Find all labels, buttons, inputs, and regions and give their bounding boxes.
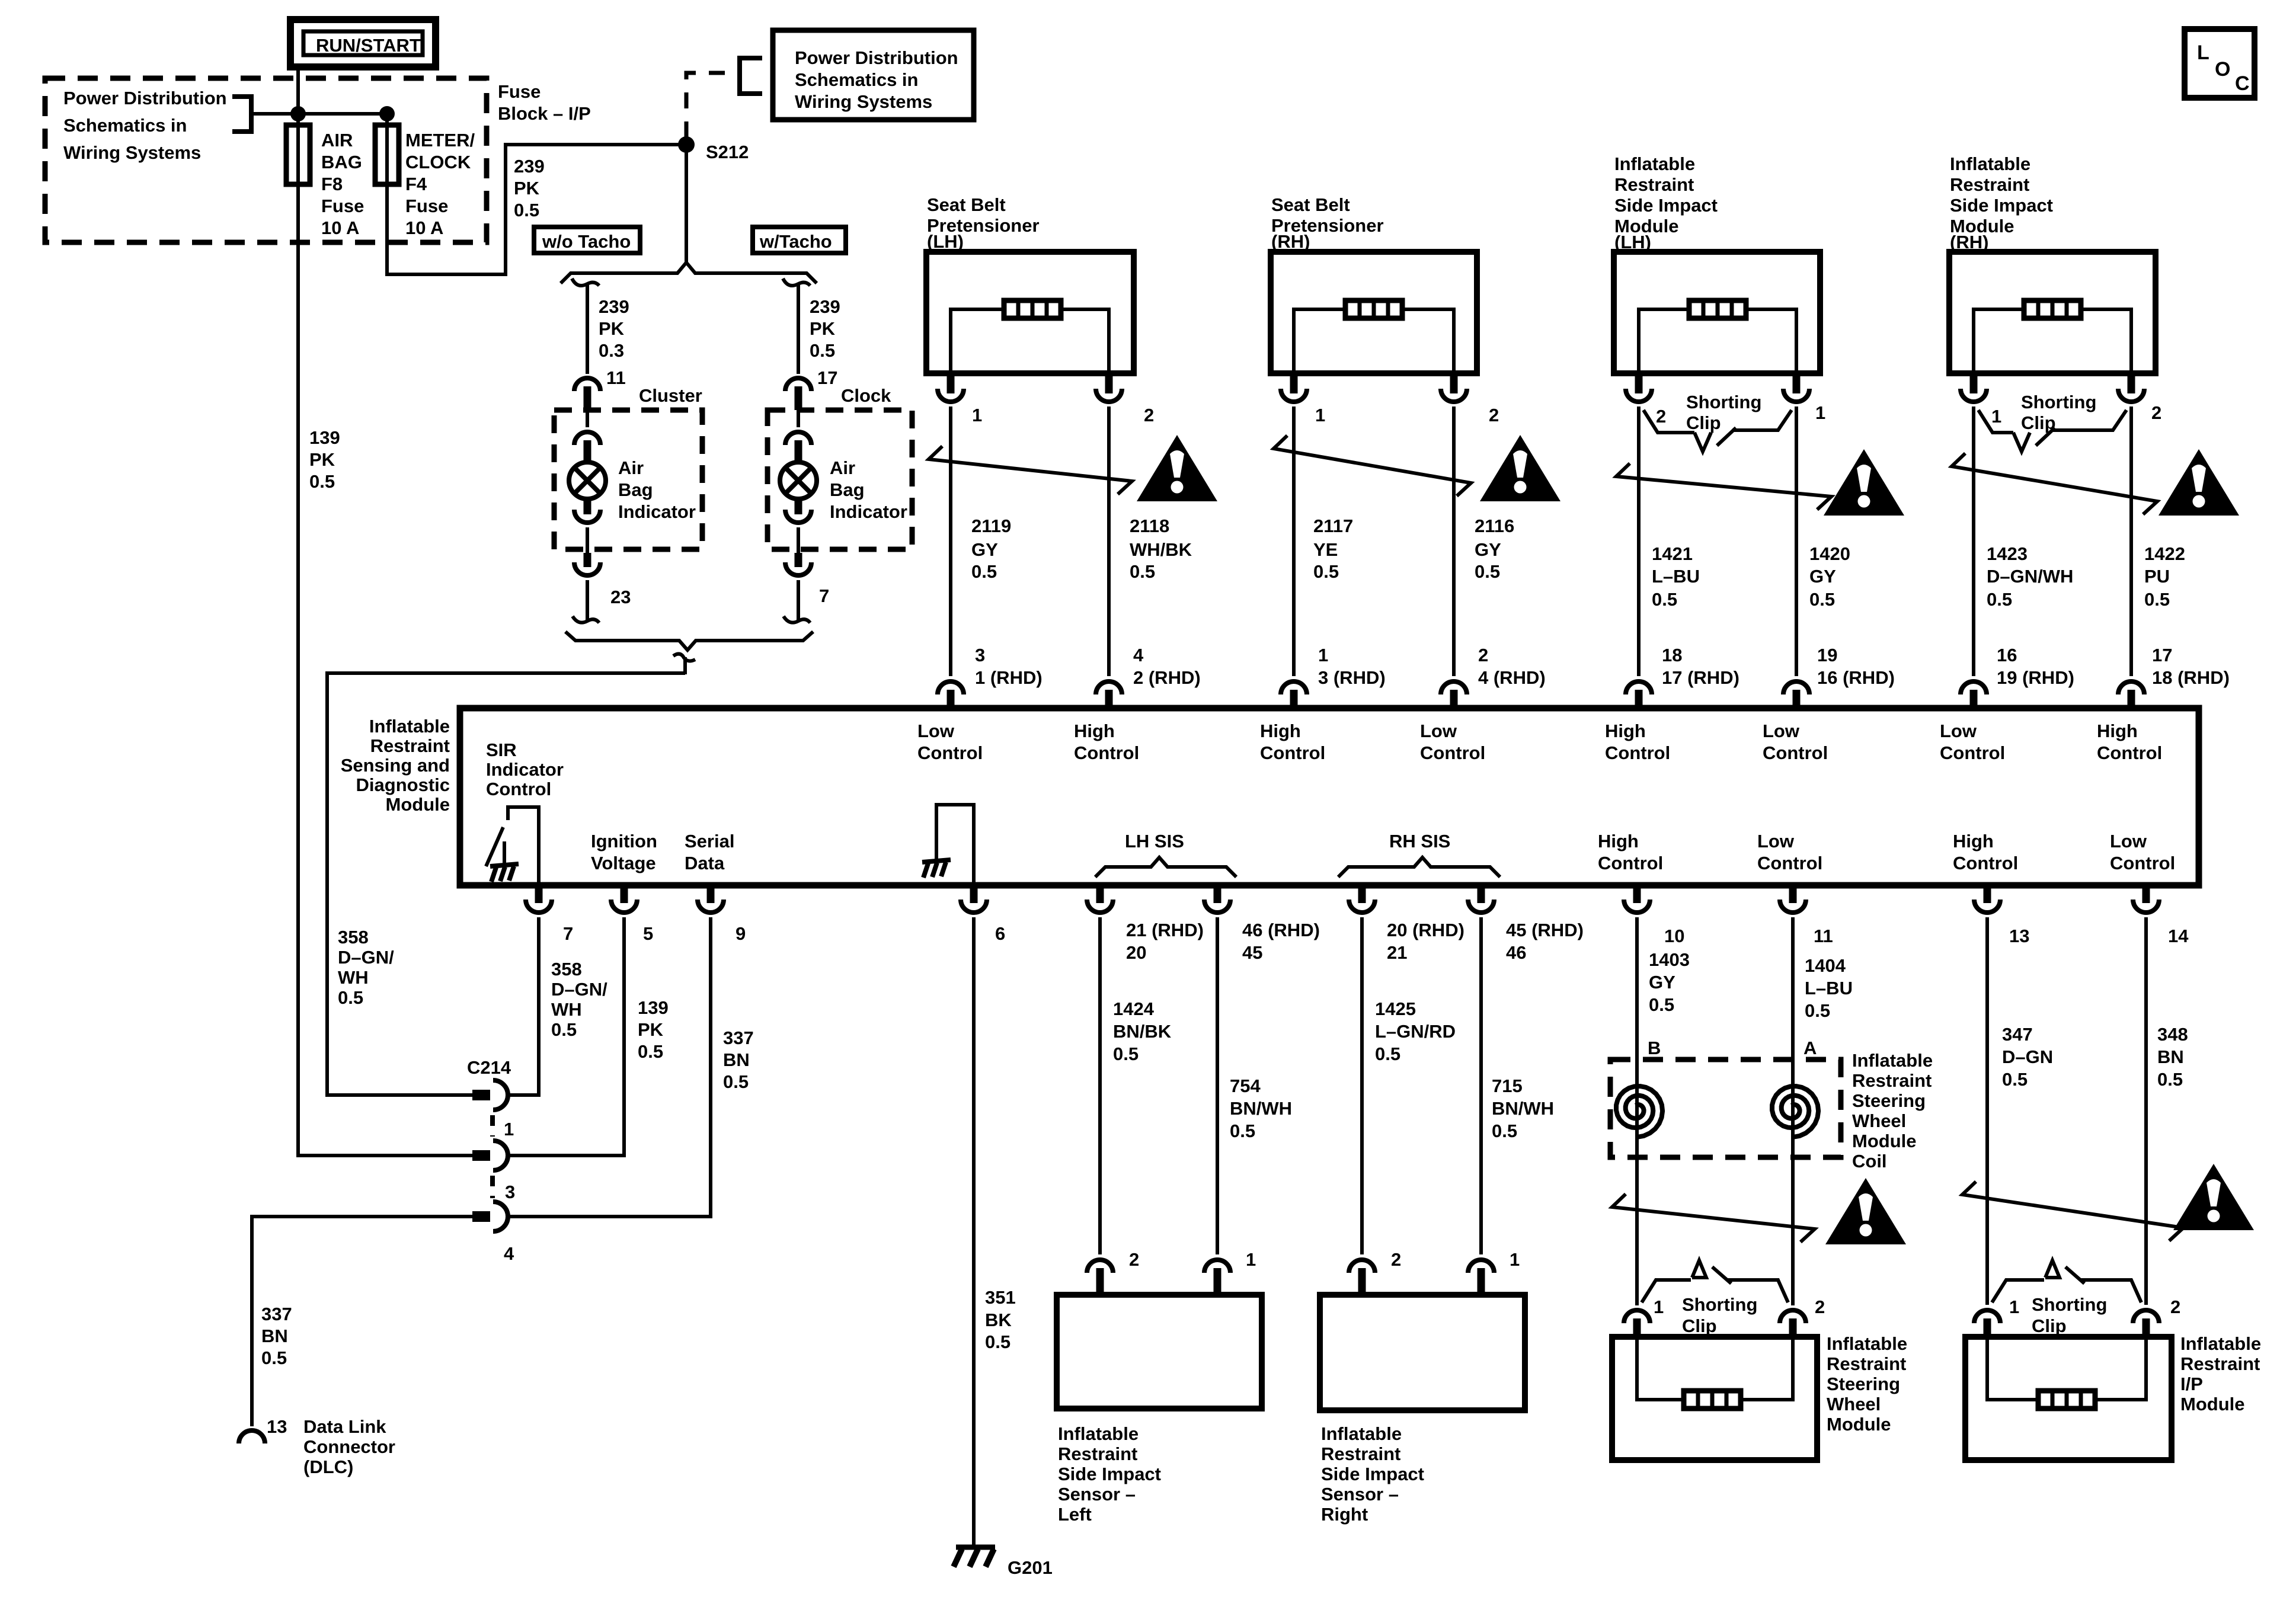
svg-text:BN: BN: [723, 1049, 750, 1070]
dashed wire S212 up: [686, 73, 740, 137]
svg-text:Side Impact: Side Impact: [1614, 195, 1718, 216]
svg-text:1: 1: [504, 1119, 514, 1140]
label 337 BN 0.5 DLC: [261, 1304, 292, 1368]
svg-text:1: 1: [972, 405, 982, 425]
warning triangle steering wheel: [1825, 1178, 1906, 1244]
SIM RH internal wires: [1974, 309, 2131, 373]
svg-text:17 (RHD): 17 (RHD): [1662, 667, 1739, 688]
module pin 754: [1204, 885, 1230, 913]
svg-text:13: 13: [2009, 926, 2029, 946]
svg-text:Ignition: Ignition: [591, 831, 657, 852]
wire 1425 L-GN/RD: [1360, 917, 1364, 1254]
label Low Control 3025 bottom: [1757, 831, 1822, 873]
svg-text:Data Link: Data Link: [303, 1416, 386, 1437]
module pin 9: [698, 885, 724, 913]
coil A spiral: [1772, 1086, 1818, 1137]
svg-text:Control: Control: [1598, 853, 1663, 873]
svg-text:PU: PU: [2144, 566, 2170, 587]
diagonal crossing steering wheel: [1612, 1194, 1815, 1242]
label 2118 WH/BK 0.5: [1130, 516, 1192, 582]
label 45 RHD 46: [1506, 920, 1584, 963]
wire F4 top: [385, 114, 389, 184]
svg-text:Inflatable: Inflatable: [1827, 1333, 1907, 1354]
svg-text:5: 5: [643, 923, 653, 944]
svg-text:1: 1: [1654, 1297, 1664, 1317]
wire 239 PK 0.5 clock: [797, 283, 800, 374]
svg-text:45 (RHD): 45 (RHD): [1506, 920, 1584, 940]
hook merge output: [673, 654, 695, 675]
fuse block dashed box: [45, 78, 487, 242]
SIM RH pin 2: [2118, 373, 2144, 402]
svg-text:Low: Low: [917, 721, 955, 741]
label Air Bag Indicator: [618, 457, 696, 522]
label 139 PK 0.5 pin5: [638, 997, 669, 1062]
svg-text:Restraint: Restraint: [1614, 174, 1694, 195]
svg-text:4: 4: [504, 1243, 514, 1264]
label pins 2 4RHD: [1478, 645, 1546, 688]
box power distribution schematics in wiring systems: [773, 30, 974, 120]
SIR switch ground: [490, 841, 519, 882]
svg-text:20: 20: [1126, 942, 1146, 963]
svg-text:BN/WH: BN/WH: [1230, 1098, 1292, 1119]
fuse F4 METER/CLOCK: [375, 125, 399, 184]
svg-text:Control: Control: [1420, 742, 1485, 763]
svg-text:21 (RHD): 21 (RHD): [1126, 920, 1204, 940]
svg-text:1403: 1403: [1649, 949, 1690, 970]
svg-text:Restraint: Restraint: [1321, 1443, 1400, 1464]
svg-text:Inflatable: Inflatable: [1852, 1050, 1933, 1071]
svg-text:18 (RHD): 18 (RHD): [2152, 667, 2230, 688]
svg-text:Control: Control: [2097, 742, 2162, 763]
svg-text:11: 11: [606, 367, 626, 388]
node dot F4 feed: [379, 106, 395, 121]
svg-text:Right: Right: [1321, 1504, 1368, 1525]
svg-text:Restraint: Restraint: [370, 735, 450, 756]
svg-text:358: 358: [338, 927, 369, 948]
bracket to power distribution box: [740, 58, 762, 94]
dashed box cluster: [554, 410, 702, 549]
svg-text:337: 337: [261, 1304, 292, 1324]
module pin 5: [611, 885, 637, 913]
svg-text:Inflatable: Inflatable: [1614, 153, 1695, 174]
label pins 17 18RHD: [2152, 645, 2230, 688]
label Ignition Voltage: [591, 831, 657, 873]
svg-text:0.5: 0.5: [1475, 561, 1500, 582]
svg-text:2: 2: [1129, 1249, 1139, 1270]
diagonal crossing SIM LH: [1616, 463, 1831, 510]
label 239 PK 0.5: [810, 296, 840, 361]
svg-text:2 (RHD): 2 (RHD): [1133, 667, 1201, 688]
svg-text:Shorting: Shorting: [1686, 392, 1761, 412]
label 1425 L-GN/RD 0.5: [1375, 998, 1456, 1064]
svg-text:1: 1: [2009, 1297, 2019, 1317]
svg-text:Air: Air: [830, 457, 855, 478]
label Inflatable Restraint Side Impact Sensor Right: [1321, 1423, 1424, 1525]
svg-text:2119: 2119: [971, 516, 1011, 536]
sensor left pin 1 dome: [1204, 1260, 1230, 1295]
SIM LH pin 2: [1626, 373, 1652, 402]
lamp air bag indicator cluster: [569, 462, 606, 499]
svg-text:Restraint: Restraint: [1058, 1443, 1137, 1464]
diagonal crossing pretensioner RH: [1274, 436, 1471, 496]
label 754 BN/WH 0.5: [1230, 1076, 1292, 1141]
svg-text:1: 1: [1315, 405, 1325, 425]
svg-text:1: 1: [1815, 402, 1825, 423]
wire 348 BN: [2144, 917, 2148, 1305]
svg-text:0.5: 0.5: [1230, 1121, 1255, 1141]
svg-text:Indicator: Indicator: [618, 501, 696, 522]
sensor right pin 1 dome: [1468, 1260, 1494, 1295]
label 1420 GY 0.5: [1809, 543, 1850, 610]
hook clock wire top: [783, 279, 810, 286]
module pin 13: [1974, 885, 2000, 913]
svg-text:0.5: 0.5: [1649, 994, 1674, 1015]
label 239 PK 0.3: [599, 296, 629, 361]
svg-text:RH SIS: RH SIS: [1389, 831, 1450, 852]
svg-text:Schematics in: Schematics in: [795, 69, 918, 90]
shorting clip IP: [1992, 1260, 2141, 1302]
steering pin 1 dome: [1624, 1310, 1650, 1339]
module pin dome 2765: [1626, 681, 1652, 710]
squib SIM LH: [1689, 300, 1746, 318]
svg-text:0.5: 0.5: [338, 987, 363, 1008]
label 46 RHD 45: [1242, 920, 1320, 963]
label 1423 D-GN/WH 0.5: [1987, 543, 2073, 610]
svg-text:Wheel: Wheel: [1852, 1110, 1906, 1131]
wire 351 BK ground: [972, 917, 976, 1547]
svg-text:4 (RHD): 4 (RHD): [1478, 667, 1546, 688]
label Low Control 2453: [1420, 721, 1485, 763]
svg-text:CLOCK: CLOCK: [405, 152, 471, 172]
wire RUN/START down to fuse F8: [296, 67, 300, 184]
svg-text:1: 1: [1510, 1249, 1520, 1270]
svg-text:13: 13: [267, 1416, 287, 1437]
wire F4 to S212: [387, 145, 686, 274]
svg-text:Inflatable: Inflatable: [1321, 1423, 1402, 1444]
svg-text:O: O: [2215, 58, 2230, 81]
pretensioner LH pin 1: [938, 373, 964, 402]
svg-text:Shorting: Shorting: [1682, 1294, 1757, 1315]
svg-text:RUN/START: RUN/START: [316, 35, 421, 56]
label Low Control 3621 bottom: [2110, 831, 2175, 873]
svg-text:3: 3: [505, 1182, 515, 1202]
svg-text:BN: BN: [261, 1326, 288, 1346]
label Inflatable Restraint Side Impact Module (LH): [1614, 153, 1718, 252]
warning triangle SIM LH: [1824, 449, 1904, 516]
label SIR Indicator Control: [486, 740, 564, 799]
svg-text:0.5: 0.5: [1492, 1121, 1517, 1141]
label Inflatable Restraint Side Impact Sensor Left: [1058, 1423, 1161, 1525]
svg-text:10 A: 10 A: [321, 217, 359, 238]
svg-text:17: 17: [817, 367, 837, 388]
svg-text:2: 2: [1478, 645, 1488, 665]
label Inflatable Restraint Steering Wheel Module Coil: [1852, 1050, 1933, 1172]
svg-text:Module: Module: [1827, 1414, 1891, 1435]
svg-text:Shorting: Shorting: [2032, 1294, 2107, 1315]
wire 715 BN/WH: [1479, 917, 1483, 1254]
module pin 1425: [1349, 885, 1375, 913]
module pin 7: [526, 885, 552, 913]
svg-text:2: 2: [1656, 406, 1666, 427]
label Shorting Clip steering: [1682, 1294, 1757, 1336]
svg-text:0.5: 0.5: [1809, 589, 1835, 610]
connector C214 pin 4: [472, 1202, 508, 1231]
squib pretensioner LH: [1004, 300, 1061, 318]
label 358 D-GN/WH left: [338, 927, 394, 1008]
label 1421 L-BU 0.5: [1652, 543, 1700, 610]
svg-text:L–BU: L–BU: [1805, 978, 1853, 998]
svg-text:0.5: 0.5: [551, 1019, 577, 1040]
svg-text:Bag: Bag: [618, 479, 653, 500]
svg-text:46: 46: [1506, 942, 1526, 963]
wire DLC to C214 pin 4: [252, 1217, 472, 1426]
wire 1403 GY: [1635, 917, 1639, 1305]
svg-text:D–GN/: D–GN/: [338, 947, 394, 968]
svg-text:WH: WH: [551, 999, 582, 1020]
dashed box steering wheel coil: [1610, 1060, 1841, 1157]
wire 1421 L-BU: [1637, 406, 1641, 676]
svg-text:LH SIS: LH SIS: [1125, 831, 1184, 852]
label Seat Belt Pretensioner (RH): [1271, 194, 1384, 252]
pretensioner LH internal wires: [951, 309, 1109, 373]
label 715 BN/WH 0.5: [1492, 1076, 1554, 1141]
label 337 BN 0.5 pin9: [723, 1028, 754, 1092]
svg-text:High: High: [1260, 721, 1301, 741]
wire bracket to jumper: [251, 112, 387, 116]
svg-text:PK: PK: [309, 449, 335, 470]
svg-text:Restraint: Restraint: [1852, 1070, 1932, 1091]
svg-text:C214: C214: [467, 1057, 511, 1078]
svg-text:BAG: BAG: [321, 152, 362, 172]
svg-text:16: 16: [1997, 645, 2017, 665]
label METER/CLOCK F4: [405, 130, 475, 238]
wire 2116 GY: [1452, 406, 1456, 676]
module pin dome 3031: [1783, 681, 1809, 710]
svg-text:1424: 1424: [1113, 998, 1155, 1019]
wire 347 D-GN: [1985, 917, 1989, 1305]
label 2116 GY 0.5: [1475, 516, 1514, 582]
svg-text:Clip: Clip: [1682, 1315, 1717, 1336]
svg-text:High: High: [2097, 721, 2138, 741]
svg-text:L: L: [2197, 41, 2209, 64]
svg-text:METER/: METER/: [405, 130, 475, 151]
svg-text:0.5: 0.5: [971, 561, 997, 582]
svg-text:(LH): (LH): [927, 231, 964, 252]
svg-text:Sensor –: Sensor –: [1321, 1484, 1399, 1505]
svg-text:1420: 1420: [1809, 543, 1850, 564]
hook cluster wire bottom: [573, 616, 599, 623]
svg-text:Control: Control: [1953, 853, 2018, 873]
SIM LH internal wires: [1639, 309, 1796, 373]
svg-text:D–GN/WH: D–GN/WH: [1987, 566, 2073, 587]
svg-text:239: 239: [599, 296, 629, 317]
svg-text:Control: Control: [1605, 742, 1670, 763]
svg-text:0.5: 0.5: [1313, 561, 1339, 582]
svg-text:F4: F4: [405, 174, 427, 194]
module pin 1424: [1087, 885, 1113, 913]
svg-text:AIR: AIR: [321, 130, 353, 151]
pretensioner RH pin 2: [1441, 373, 1467, 402]
pretensioner LH pin 2: [1096, 373, 1122, 402]
svg-text:High: High: [1074, 721, 1115, 741]
module internal ground pin 6: [922, 805, 974, 884]
svg-text:Control: Control: [1074, 742, 1139, 763]
label inflatable restraint sensing and diagnostic module: [341, 716, 450, 815]
svg-text:Seat Belt: Seat Belt: [927, 194, 1006, 215]
svg-text:239: 239: [810, 296, 840, 317]
wire 1422 PU: [2129, 406, 2133, 676]
svg-text:348: 348: [2157, 1024, 2188, 1045]
cluster lamp lower cup: [574, 499, 600, 553]
svg-text:Control: Control: [1763, 742, 1828, 763]
svg-text:(DLC): (DLC): [303, 1457, 353, 1477]
box RUN/START: [290, 20, 436, 67]
SIM RH pin 1: [1961, 373, 1987, 402]
merge brace cluster clock: [565, 632, 813, 650]
dashed link C214 a: [490, 1115, 495, 1137]
svg-text:20 (RHD): 20 (RHD): [1387, 920, 1464, 940]
svg-text:239: 239: [514, 156, 545, 177]
svg-text:Wiring Systems: Wiring Systems: [795, 91, 932, 112]
brace LH SIS: [1095, 857, 1236, 877]
node S211a dot: [290, 106, 306, 121]
svg-text:S212: S212: [706, 142, 749, 162]
svg-text:Low: Low: [1420, 721, 1457, 741]
svg-text:Control: Control: [486, 779, 551, 799]
svg-text:Module: Module: [2180, 1394, 2245, 1414]
svg-text:1421: 1421: [1652, 543, 1693, 564]
wire C214 pin3 to module pin 5: [509, 917, 624, 1156]
svg-text:17: 17: [2152, 645, 2172, 665]
svg-text:Low: Low: [1763, 721, 1800, 741]
svg-text:2: 2: [1815, 1297, 1825, 1317]
label 1422 PU 0.5: [2144, 543, 2185, 610]
IP module internal wires: [1987, 1337, 2146, 1400]
node S212: [678, 136, 695, 153]
ground G201: [954, 1547, 995, 1567]
svg-text:Side Impact: Side Impact: [1058, 1464, 1161, 1484]
label pins 16 19RHD: [1997, 645, 2074, 688]
wire 2119 GY: [949, 406, 952, 676]
pin 23 cup: [574, 553, 600, 622]
box seat belt pretensioner LH: [926, 252, 1134, 373]
svg-text:2118: 2118: [1130, 516, 1169, 536]
svg-text:11: 11: [1814, 926, 1833, 946]
label 239 PK 0.5 top: [514, 156, 545, 220]
label 21 RHD 20: [1126, 920, 1204, 963]
steering module internal wires: [1637, 1337, 1793, 1400]
svg-text:(RH): (RH): [1271, 231, 1310, 252]
svg-text:Steering: Steering: [1827, 1374, 1900, 1394]
svg-text:2: 2: [1144, 405, 1154, 425]
svg-text:Indicator: Indicator: [486, 759, 564, 780]
label High Control 1871: [1074, 721, 1139, 763]
svg-text:0.5: 0.5: [261, 1347, 287, 1368]
svg-text:B: B: [1648, 1038, 1661, 1058]
svg-text:w/Tacho: w/Tacho: [759, 231, 832, 252]
svg-text:Indicator: Indicator: [830, 501, 907, 522]
svg-text:Sensing and: Sensing and: [341, 755, 450, 776]
svg-text:1425: 1425: [1375, 998, 1416, 1019]
label 139 PK 0.5 left: [309, 427, 340, 492]
svg-text:Power Distribution: Power Distribution: [63, 88, 227, 108]
svg-text:Module: Module: [386, 794, 450, 815]
svg-text:F8: F8: [321, 174, 343, 194]
svg-text:0.5: 0.5: [1987, 589, 2012, 610]
wire 754 BN/WH: [1216, 917, 1219, 1254]
svg-text:337: 337: [723, 1028, 754, 1048]
svg-text:0.5: 0.5: [514, 200, 539, 220]
steering pin 2 dome: [1780, 1310, 1806, 1339]
svg-text:0.5: 0.5: [723, 1071, 749, 1092]
svg-text:19: 19: [1817, 645, 1837, 665]
module pin 10: [1624, 885, 1650, 913]
module pin 14: [2133, 885, 2159, 913]
svg-text:2: 2: [1489, 405, 1499, 425]
pin 17 dome: [785, 378, 811, 410]
module pin dome 3330: [1961, 681, 1987, 710]
svg-text:Data: Data: [685, 853, 725, 873]
label Low Control 1604: [917, 721, 983, 763]
svg-text:1422: 1422: [2144, 543, 2185, 564]
svg-text:10: 10: [1664, 926, 1684, 946]
label High Control 2183: [1260, 721, 1325, 763]
svg-text:Inflatable: Inflatable: [2180, 1333, 2261, 1354]
label Inflatable Restraint Steering Wheel Module: [1827, 1333, 1907, 1435]
svg-text:Connector: Connector: [303, 1436, 395, 1457]
svg-text:Side Impact: Side Impact: [1321, 1464, 1424, 1484]
svg-text:Clip: Clip: [1686, 412, 1721, 433]
svg-text:Restraint: Restraint: [2180, 1353, 2260, 1374]
label Seat Belt Pretensioner (LH): [927, 194, 1040, 252]
pin 7 clock cup: [785, 553, 811, 622]
svg-text:754: 754: [1230, 1076, 1261, 1096]
svg-text:358: 358: [551, 959, 582, 980]
label Low Control 3031: [1763, 721, 1828, 763]
wire 2118 WH/BK: [1107, 406, 1111, 676]
svg-text:Low: Low: [1757, 831, 1795, 852]
svg-text:Fuse: Fuse: [498, 81, 541, 102]
svg-text:PK: PK: [638, 1019, 664, 1040]
dashed link C214 b: [490, 1176, 495, 1198]
label power distribution schematics left: [63, 88, 227, 163]
label 13 Data Link Connector DLC: [267, 1416, 395, 1477]
svg-text:347: 347: [2002, 1024, 2033, 1045]
svg-text:BN/BK: BN/BK: [1113, 1021, 1172, 1042]
svg-text:Control: Control: [1260, 742, 1325, 763]
svg-text:Seat Belt: Seat Belt: [1271, 194, 1350, 215]
svg-text:2: 2: [1391, 1249, 1401, 1270]
module pin dome 2183: [1281, 681, 1307, 710]
label AIR BAG F8: [321, 130, 364, 238]
label Shorting Clip SIM LH: [1686, 392, 1761, 433]
svg-text:Wheel: Wheel: [1827, 1394, 1881, 1414]
brace split w/o w/ tacho: [561, 263, 817, 283]
svg-text:Inflatable: Inflatable: [1950, 153, 2030, 174]
sensor left pin 2 dome: [1087, 1260, 1113, 1295]
squib steering wheel module: [1684, 1391, 1741, 1409]
svg-text:Control: Control: [1940, 742, 2005, 763]
label 1404 L-BU 0.5: [1805, 955, 1853, 1021]
diagonal crossing IP module: [1962, 1182, 2183, 1241]
wire 2117 YE: [1292, 406, 1296, 676]
svg-text:Clip: Clip: [2032, 1315, 2067, 1336]
svg-text:Clock: Clock: [841, 385, 891, 406]
pretensioner RH pin 1: [1281, 373, 1307, 402]
svg-text:w/o Tacho: w/o Tacho: [542, 231, 631, 252]
svg-text:1: 1: [1246, 1249, 1256, 1270]
svg-text:Wiring Systems: Wiring Systems: [63, 142, 201, 163]
